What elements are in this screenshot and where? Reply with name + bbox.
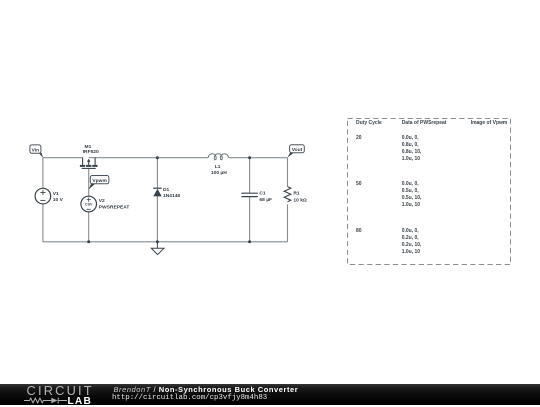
svg-text:IRF520: IRF520 [83, 149, 99, 155]
svg-text:Vin: Vin [32, 147, 40, 153]
svg-text:Vpwm: Vpwm [92, 178, 107, 184]
table column header Data of PWSrepeat [402, 120, 447, 126]
svg-text:C1: C1 [259, 190, 266, 196]
svg-text:CSV: CSV [85, 203, 93, 207]
wire gate of M1 down to V2 [88, 168, 90, 196]
wire D1 bottom [156, 196, 158, 241]
wire top rail left segment (Vin corner to M1 source) [43, 157, 83, 159]
table column header Duty Cycle [356, 120, 382, 126]
svg-text:10 kΩ: 10 kΩ [293, 198, 307, 204]
node flag Vout [287, 145, 304, 158]
table column header Image of Vpwm [471, 120, 508, 126]
footer bar [0, 384, 540, 405]
wire V1 branch bottom [42, 204, 44, 242]
wire V2 bottom [88, 212, 90, 242]
wire bottom rail [43, 241, 288, 243]
wire D1 top [156, 158, 158, 189]
svg-text:100 µH: 100 µH [211, 170, 227, 176]
transistor M1 IRF520 [80, 157, 98, 168]
node junction ground [156, 240, 159, 243]
footer title line [114, 385, 299, 394]
svg-text:Vout: Vout [292, 147, 303, 153]
svg-text:68 µF: 68 µF [259, 197, 272, 203]
logo LAB text [68, 396, 93, 407]
svg-text:V1: V1 [53, 191, 59, 197]
wire R1 top [287, 158, 289, 187]
node junction D1 top [156, 156, 159, 159]
node flag Vpwm [89, 176, 109, 190]
svg-text:PWSREPEAT: PWSREPEAT [99, 204, 130, 210]
logo wire with resistor and diode [24, 396, 68, 405]
wire R1 bottom [287, 204, 289, 241]
table row 3 data [402, 228, 422, 256]
svg-text:R1: R1 [293, 190, 300, 196]
ground [151, 242, 164, 255]
annotation table dashed box [344, 115, 514, 267]
logo CIRCUIT text [27, 383, 94, 398]
svg-text:L1: L1 [215, 164, 221, 170]
diode D1 1N4148 [153, 188, 162, 196]
wire C1 top [249, 158, 251, 194]
voltage source V1 [35, 188, 51, 204]
node junction C1 top [248, 156, 251, 159]
table row 1 data [402, 135, 422, 163]
node junction V2 bottom [87, 240, 90, 243]
footer url line [112, 394, 267, 402]
table row 2 data [402, 181, 422, 209]
table row 1 duty cycle 20 [356, 135, 362, 141]
svg-text:D1: D1 [163, 187, 170, 193]
capacitor C1 [241, 193, 257, 196]
table row 3 duty cycle 80 [356, 228, 362, 234]
wire top rail right of M1 to inductor [89, 157, 209, 159]
inductor L1 [208, 154, 228, 160]
node flag Vin [30, 145, 43, 158]
wire V1 branch top [42, 158, 44, 189]
resistor R1 [284, 187, 291, 202]
svg-text:1N4148: 1N4148 [163, 193, 180, 199]
svg-text:V2: V2 [99, 198, 105, 204]
node junction C1 bottom [248, 240, 251, 243]
voltage source V2 PWSREPEAT [81, 196, 97, 212]
wire C1 bottom [249, 197, 251, 242]
table row 2 duty cycle 50 [356, 181, 362, 187]
svg-text:10 V: 10 V [53, 197, 64, 203]
wire top rail inductor to Vout corner [229, 157, 288, 159]
